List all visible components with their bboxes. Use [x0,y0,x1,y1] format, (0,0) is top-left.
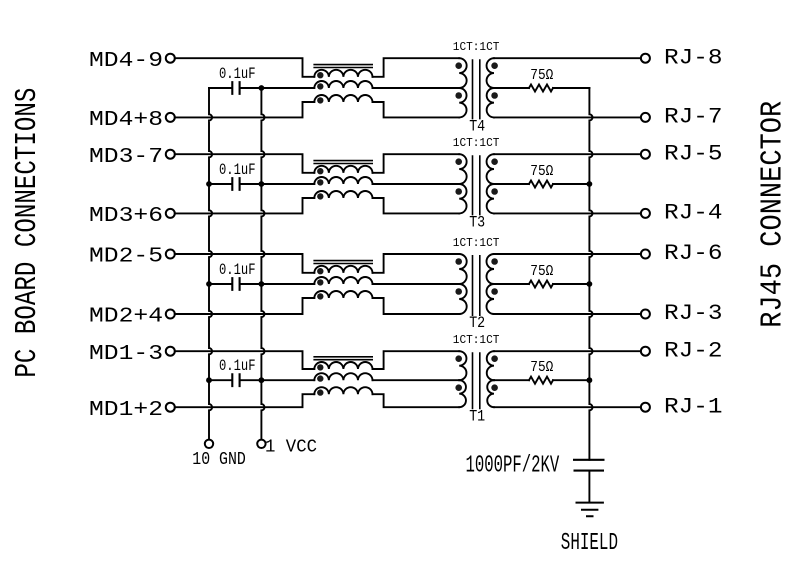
junction R2-shield rail [587,281,593,287]
wire T4 to RJ-8 [494,57,641,59]
svg-text:1 VCC: 1 VCC [265,436,317,457]
terminal RJ-6 [641,250,650,259]
transformer T3 secondary winding [487,154,494,184]
junction C3-GND [206,181,212,187]
transformer T1 primary winding [459,351,466,380]
wire T2 to RJ-6 [494,253,641,255]
wire C5 to shield ground [588,471,590,502]
terminal MD3-7 [166,150,175,159]
svg-text:75Ω: 75Ω [530,68,553,84]
terminal pin 10 GND [205,440,213,448]
wire VCC to choke L4 center [261,87,314,89]
transformer T2 core [473,255,480,316]
transformer T4 primary winding [459,58,466,88]
choke L3 core [313,161,373,164]
wire choke L2 center to T2 center tap [373,283,460,285]
terminal RJ-2 [641,347,650,356]
wire MD3-7 to choke L3 [175,154,314,173]
svg-text:0.1uF: 0.1uF [219,161,256,179]
wire choke L2 a to T2 [373,254,460,273]
wire MD4-9 to choke L4 [175,58,314,77]
resistor R3 75 ohm [529,181,553,188]
terminal RJ-3 [641,310,650,319]
svg-text:0.1uF: 0.1uF [219,261,256,279]
svg-text:RJ45 CONNECTOR: RJ45 CONNECTOR [757,101,791,328]
svg-text:RJ-4: RJ-4 [664,201,723,226]
wire choke L3 a to T3 [373,154,460,173]
svg-text:1CT:1CT: 1CT:1CT [453,40,500,54]
svg-text:MD4-9: MD4-9 [89,49,163,73]
svg-text:0.1uF: 0.1uF [219,357,256,375]
svg-text:1000PF/2KV: 1000PF/2KV [466,453,560,480]
terminal MD1-3 [166,347,175,356]
wire choke L1 center to T1 center tap [373,379,460,381]
transformer T4 core [473,59,480,119]
choke L4 core [313,65,373,68]
capacitor C4 0.1uF [209,87,261,89]
terminal MD3+6 [166,209,175,218]
terminal RJ-4 [641,209,650,218]
wire choke L4 center to T4 center tap [373,87,460,89]
wire T4 center tap to resistor R4 [494,87,529,89]
svg-text:1CT:1CT: 1CT:1CT [453,236,500,250]
svg-text:T4: T4 [469,118,485,136]
wire T2 center tap to resistor R2 [494,283,529,285]
svg-text:MD2-5: MD2-5 [89,245,163,269]
svg-text:MD1-3: MD1-3 [89,342,163,366]
svg-text:10 GND: 10 GND [192,449,246,470]
wire resistor R3 to shield rail [553,183,589,185]
wire MD4+8 to choke L4 [175,102,314,117]
svg-text:MD3-7: MD3-7 [89,145,163,169]
transformer T3 core [473,155,480,215]
choke L1 winding b (center) [314,373,372,380]
wire VCC to choke L2 center [261,283,314,285]
choke L2 winding b (center) [314,277,372,284]
wire MD2+4 to choke L2 [175,298,314,314]
wire choke L1 a to T1 [373,351,460,369]
svg-text:MD1+2: MD1+2 [89,398,163,422]
wire MD1-3 to choke L1 [175,351,314,369]
svg-text:RJ-1: RJ-1 [664,394,723,419]
transformer T3 primary winding [459,154,466,184]
wire resistor R4 to shield rail [553,87,589,89]
wire T3 center tap to resistor R3 [494,183,529,185]
choke L1 core [313,357,373,360]
svg-text:SHIELD: SHIELD [561,530,618,557]
svg-text:RJ-6: RJ-6 [664,241,723,266]
wire choke L4 a to T4 [373,58,460,77]
svg-text:75Ω: 75Ω [530,164,553,180]
svg-text:MD3+6: MD3+6 [89,204,163,228]
wire MD1+2 to choke L1 [175,394,314,407]
choke L4 winding a [314,70,372,77]
terminal MD2-5 [166,250,175,259]
svg-text:1CT:1CT: 1CT:1CT [453,333,500,347]
wire choke L2 c to T2 [373,298,460,314]
terminal MD4-9 [166,54,175,63]
wire T1 center tap to resistor R1 [494,379,529,381]
choke L3 winding a [314,166,372,173]
ground SHIELD [576,503,604,517]
choke L3 winding b (center) [314,177,372,184]
choke L2 winding c [314,291,372,298]
wire T3 to RJ-5 [494,153,641,155]
wire MD3+6 to choke L3 [175,198,314,213]
svg-text:RJ-8: RJ-8 [664,45,723,70]
svg-text:RJ-3: RJ-3 [664,301,723,326]
choke L2 winding a [314,266,372,273]
wire resistor R2 to shield rail [553,283,589,285]
svg-text:RJ-5: RJ-5 [664,141,723,166]
terminal pin 1 VCC [257,440,265,448]
transformer T1 secondary winding [487,351,494,380]
terminal MD1+2 [166,403,175,412]
svg-text:T2: T2 [469,314,485,332]
junction C2-GND [206,281,212,287]
junction C1-VCC [259,377,265,383]
transformer T4 secondary winding [487,58,494,88]
wire VCC to choke L3 center [261,183,314,185]
wire choke L4 c to T4 [373,102,460,117]
terminal MD2+4 [166,310,175,319]
svg-text:T3: T3 [469,214,485,232]
wire T1 to RJ-2 [494,350,641,352]
capacitor C2 0.1uF [209,283,261,285]
transformer T1 core [473,352,480,409]
terminal RJ-5 [641,150,650,159]
svg-text:75Ω: 75Ω [530,264,553,280]
terminal RJ-7 [641,113,650,122]
junction C4-VCC [259,85,265,91]
choke L2 core [313,261,373,264]
terminal MD4+8 [166,113,175,122]
capacitor C5 1000PF/2KV [573,460,605,471]
svg-text:MD2+4: MD2+4 [89,305,163,329]
resistor R1 75 ohm [529,377,553,384]
capacitor C1 0.1uF [209,379,261,381]
wire T1 to RJ-1 [494,406,641,408]
svg-text:RJ-2: RJ-2 [664,338,723,363]
resistor R4 75 ohm [529,85,553,92]
choke L3 winding c [314,191,372,198]
wire choke L3 center to T3 center tap [373,183,460,185]
wire VCC to choke L1 center [261,379,314,381]
resistor R2 75 ohm [529,281,553,288]
wire choke L1 c to T1 [373,394,460,407]
choke L4 winding b (center) [314,81,372,88]
wire T3 to RJ-4 [494,212,641,214]
choke L1 winding c [314,387,372,394]
junction C2-VCC [259,281,265,287]
wire GND rail [209,88,212,439]
capacitor C3 0.1uF [209,183,261,185]
svg-text:PC BOARD CONNECTIONS: PC BOARD CONNECTIONS [11,88,45,378]
junction R3-shield rail [587,181,593,187]
junction C3-VCC [259,181,265,187]
junction R1-shield rail [587,377,593,383]
svg-text:0.1uF: 0.1uF [219,65,256,83]
terminal RJ-8 [641,54,650,63]
transformer T2 primary winding [459,254,467,284]
wire T4 to RJ-7 [494,116,641,118]
wire MD2-5 to choke L2 [175,254,314,273]
svg-text:MD4+8: MD4+8 [89,108,163,132]
svg-text:T1: T1 [469,407,485,425]
svg-text:1CT:1CT: 1CT:1CT [453,136,500,150]
wire VCC rail [261,88,264,439]
transformer T2 secondary winding [487,254,495,284]
svg-text:RJ-7: RJ-7 [664,105,723,130]
choke L4 winding c [314,95,372,102]
choke L1 winding a [314,362,372,369]
wire T2 to RJ-3 [494,313,641,315]
wire choke L3 c to T3 [373,198,460,213]
junction C1-GND [206,377,212,383]
svg-text:75Ω: 75Ω [530,360,553,376]
wire resistor R1 to shield rail [553,379,589,381]
terminal RJ-1 [641,403,650,412]
wire shield rail [589,88,592,460]
